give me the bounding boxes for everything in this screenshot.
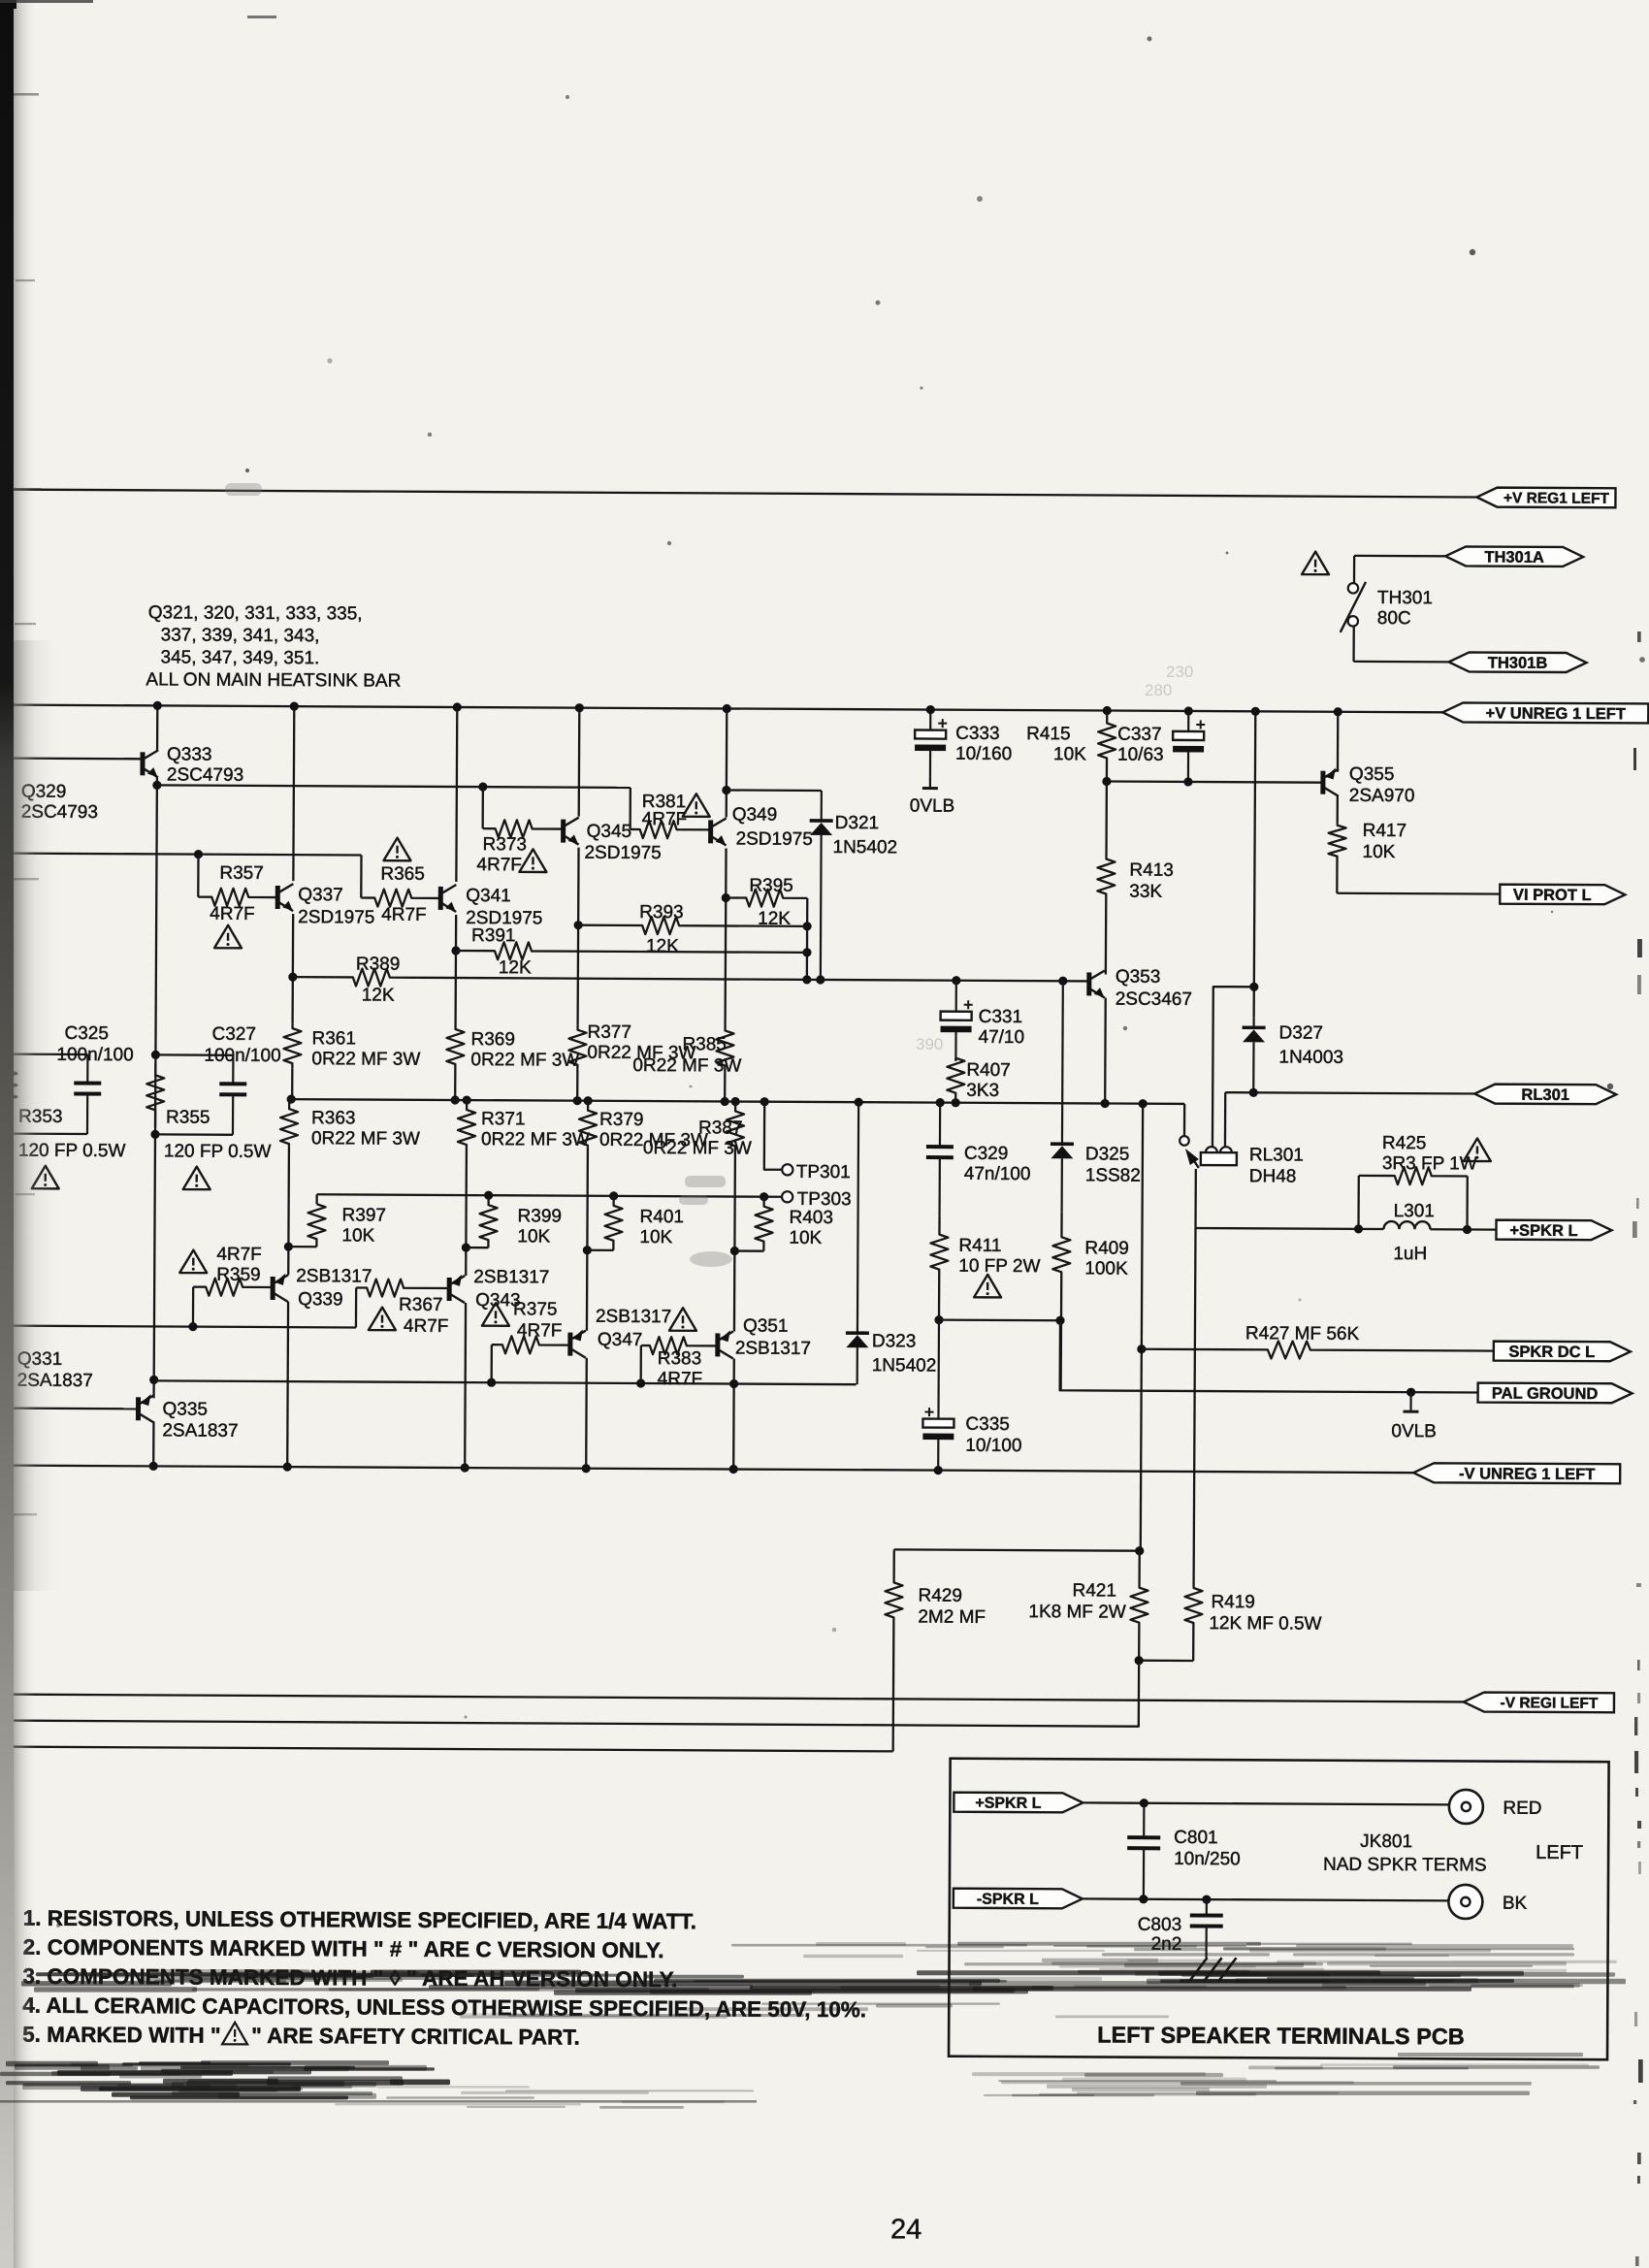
wire Q349 collector to bus bbox=[726, 708, 728, 817]
junction R409 at C335 link bbox=[1055, 1316, 1064, 1325]
wire R363 to Q339 bbox=[287, 1146, 290, 1275]
wire R373 drop bbox=[481, 787, 484, 828]
svg-text:SPKR DC L: SPKR DC L bbox=[1508, 1344, 1595, 1361]
resistor R365 4R7F bbox=[361, 889, 440, 906]
terminal RED bbox=[1449, 1790, 1542, 1825]
wire speaker DC column bbox=[1141, 1104, 1143, 1551]
svg-text:33K: 33K bbox=[1129, 882, 1162, 902]
svg-text:1N5402: 1N5402 bbox=[872, 1355, 937, 1376]
junction left column zobel top bbox=[4, 1050, 13, 1058]
junction R421 R419 bottom bbox=[1135, 1656, 1144, 1665]
label R357 value bbox=[210, 904, 255, 924]
label R411 bbox=[958, 1236, 1040, 1277]
label C333 bbox=[955, 724, 1012, 764]
junction R399 top bbox=[484, 1191, 493, 1200]
wire Q341 emitter bbox=[454, 915, 457, 1024]
label R399 bbox=[517, 1206, 562, 1247]
svg-text:TH301B: TH301B bbox=[1488, 655, 1548, 672]
svg-text:4R7F: 4R7F bbox=[216, 1245, 262, 1265]
junction speaker DC sense tap bbox=[1139, 1099, 1148, 1108]
junction Q333 collector at bus bbox=[153, 701, 162, 710]
wire relay to speaker line bbox=[1194, 1169, 1197, 1228]
junction R399 return tap bbox=[462, 1243, 470, 1251]
svg-text:1. RESISTORS, UNLESS OTHERWISE: 1. RESISTORS, UNLESS OTHERWISE SPECIFIED… bbox=[23, 1906, 696, 1934]
svg-text:0R22 MF 3W: 0R22 MF 3W bbox=[481, 1129, 590, 1150]
resistor R389 12K bbox=[293, 968, 418, 987]
svg-text:R383: R383 bbox=[658, 1348, 702, 1369]
svg-text:C333: C333 bbox=[955, 724, 1000, 744]
label R377 bbox=[587, 1022, 695, 1064]
resistor R381 4R7F bbox=[630, 821, 711, 838]
wire TH301B drop bbox=[1352, 627, 1354, 662]
svg-text:D321: D321 bbox=[835, 813, 880, 833]
resistor R353 bbox=[0, 1054, 16, 1134]
svg-text:R399: R399 bbox=[518, 1206, 563, 1226]
wire VI PROT lead bbox=[1337, 892, 1500, 895]
svg-text:R355: R355 bbox=[166, 1107, 210, 1127]
junction R401 return tap bbox=[583, 1246, 592, 1254]
resistor R377 0R22 MF 3W bbox=[568, 1025, 586, 1070]
terminal BK bbox=[1448, 1885, 1527, 1919]
junction R361 at output rail bbox=[287, 1094, 296, 1103]
label R353 value bbox=[18, 1141, 126, 1162]
svg-text:Q345: Q345 bbox=[587, 822, 632, 842]
junction C801 bottom bbox=[1139, 1895, 1148, 1903]
svg-text:RL301: RL301 bbox=[1521, 1086, 1569, 1104]
svg-text:80C: 80C bbox=[1377, 608, 1411, 629]
svg-text:10K: 10K bbox=[341, 1225, 374, 1246]
wire left column lower bbox=[5, 1380, 8, 1466]
junction Q337 collector at bus bbox=[290, 702, 299, 711]
net flag -V REG1 LEFT bbox=[1464, 1692, 1614, 1712]
resistor R375 4R7F bbox=[492, 1336, 570, 1353]
junction 12K ladder at sense line bbox=[802, 975, 811, 984]
wire lower base line 2 bbox=[0, 1326, 356, 1328]
resistor R383 4R7F bbox=[641, 1337, 718, 1354]
capacitor C803 2n2 bbox=[1190, 1899, 1223, 1958]
svg-text:47/10: 47/10 bbox=[978, 1027, 1024, 1048]
transistor Q349 2SD1975 bbox=[711, 818, 727, 845]
label R357 bbox=[219, 863, 264, 884]
wire relay feed column bbox=[1254, 711, 1256, 1017]
junction Q335 collector at -V bus bbox=[149, 1462, 158, 1471]
junction R401 top bbox=[609, 1191, 618, 1200]
safety triangle R357 bbox=[214, 925, 242, 949]
label R425 bbox=[1382, 1133, 1477, 1175]
svg-text:Q335: Q335 bbox=[162, 1399, 208, 1419]
wire +SPKR line bbox=[1196, 1228, 1384, 1229]
svg-text:2SC4793: 2SC4793 bbox=[167, 764, 243, 785]
label R383 bbox=[658, 1348, 703, 1389]
scan artifact smear over note 2 bbox=[731, 1942, 1574, 1958]
relay RL301 contact bbox=[1180, 1136, 1199, 1168]
svg-text:R389: R389 bbox=[356, 954, 401, 974]
transistor Q331 2SA1837 bbox=[0, 1350, 7, 1378]
svg-text:2SD1975: 2SD1975 bbox=[298, 907, 374, 927]
resistor R411 10 FP 2W bbox=[930, 1216, 949, 1320]
safety triangle R365 bbox=[383, 838, 410, 861]
transistor Q345 2SD1975 bbox=[564, 818, 579, 845]
svg-text:2SB1317: 2SB1317 bbox=[473, 1267, 549, 1287]
net flag +SPKR L bbox=[1496, 1220, 1611, 1241]
junction C337 bottom bbox=[1183, 777, 1192, 786]
label Q343 bbox=[473, 1267, 549, 1311]
resistor R387 0R22 MF 3W bbox=[727, 1101, 744, 1148]
svg-text:Q333: Q333 bbox=[167, 744, 212, 764]
svg-text:D323: D323 bbox=[872, 1331, 917, 1351]
wire TP301 stub bbox=[764, 1102, 782, 1170]
junction R415 R413 node bbox=[1102, 777, 1111, 786]
svg-text:C327: C327 bbox=[211, 1024, 256, 1045]
svg-text:0R22 MF 3W: 0R22 MF 3W bbox=[311, 1128, 420, 1150]
label R403 bbox=[789, 1208, 833, 1248]
transistor Q337 2SD1975 bbox=[277, 884, 293, 911]
wire R397 top leg bbox=[315, 1194, 317, 1204]
junction Q333 emitter node bbox=[152, 781, 161, 790]
transistor Q329 2SC4793 bbox=[0, 768, 10, 795]
junction R403 top bbox=[760, 1192, 768, 1201]
wire R409 to PAL ground bbox=[1060, 1320, 1478, 1392]
svg-text:R387: R387 bbox=[698, 1118, 743, 1138]
wire R377 to output rail bbox=[576, 1070, 578, 1101]
resistor R357 4R7F bbox=[198, 889, 276, 906]
label R415 bbox=[1026, 724, 1086, 764]
label R419 bbox=[1209, 1592, 1321, 1635]
svg-text:3R3 FP 1W: 3R3 FP 1W bbox=[1382, 1153, 1477, 1175]
svg-text:10n/250: 10n/250 bbox=[1174, 1849, 1241, 1869]
svg-text:Q321, 320, 331, 333, 335,: Q321, 320, 331, 333, 335, bbox=[148, 602, 363, 624]
wire C327 top leg bbox=[155, 1053, 233, 1056]
scan artifact smear over note 3 bbox=[21, 1969, 1626, 1995]
svg-text:2M2 MF: 2M2 MF bbox=[918, 1607, 986, 1628]
safety triangle R425 bbox=[1464, 1138, 1491, 1161]
resistor R373 4R7F bbox=[483, 820, 562, 837]
transistor Q333 2SC4793 bbox=[143, 750, 158, 777]
junction R395 at R393 bbox=[803, 922, 812, 930]
svg-text:R397: R397 bbox=[342, 1205, 387, 1225]
label R369 bbox=[470, 1029, 579, 1071]
svg-text:10K: 10K bbox=[1053, 744, 1086, 764]
wire R375 riser bbox=[491, 1345, 494, 1382]
svg-text:TP301: TP301 bbox=[796, 1162, 851, 1183]
svg-text:TH301: TH301 bbox=[1377, 588, 1433, 608]
wire R397 return bbox=[288, 1246, 316, 1247]
net flag +SPKR L pcb bbox=[954, 1793, 1083, 1813]
junction D321 at sense line bbox=[816, 975, 824, 984]
label R393 value bbox=[646, 936, 679, 956]
wire Q353 emitter to rail bbox=[1104, 998, 1107, 1104]
wire R403 return bbox=[734, 1249, 763, 1251]
wire RL301 flag line bbox=[1225, 1092, 1495, 1093]
label R421 bbox=[1028, 1580, 1126, 1623]
wire R421 return line bbox=[0, 1655, 1139, 1727]
svg-text:0VLB: 0VLB bbox=[1391, 1421, 1437, 1442]
wire R429 R421 top link bbox=[894, 1549, 1140, 1550]
scan artifact left margin gradient bbox=[8, 0, 35, 2268]
svg-text:280: 280 bbox=[1145, 681, 1172, 699]
label R359 bbox=[216, 1245, 262, 1285]
svg-text:R401: R401 bbox=[639, 1207, 684, 1227]
svg-text:R361: R361 bbox=[311, 1028, 356, 1049]
test point TP303 bbox=[782, 1189, 852, 1210]
svg-text:10/63: 10/63 bbox=[1117, 745, 1164, 765]
wire R425 right leg bbox=[1466, 1176, 1469, 1229]
label Q347 bbox=[596, 1307, 671, 1350]
scan artifact right edge dashes bbox=[1633, 632, 1643, 2266]
junction C803 top bbox=[1202, 1895, 1211, 1903]
safety triangle R355 bbox=[183, 1167, 210, 1190]
label R379 bbox=[599, 1110, 708, 1151]
capacitor C329 47n/100 bbox=[926, 1103, 954, 1216]
label R355 bbox=[166, 1107, 210, 1127]
svg-text:100n/100: 100n/100 bbox=[56, 1045, 133, 1065]
note 5 safety triangle glyph bbox=[222, 2023, 247, 2045]
resistor R429 2M2 MF bbox=[885, 1549, 903, 1751]
wire R429 return line bbox=[0, 1747, 893, 1752]
capacitor C801 10n/250 bbox=[1127, 1803, 1161, 1899]
svg-text:R367: R367 bbox=[399, 1295, 443, 1315]
svg-text:1K8 MF 2W: 1K8 MF 2W bbox=[1028, 1602, 1125, 1623]
label C327 bbox=[204, 1024, 280, 1066]
net flag +V UNREG 1 LEFT bbox=[1442, 702, 1648, 723]
svg-text:1SS82: 1SS82 bbox=[1085, 1165, 1141, 1185]
svg-text:R421: R421 bbox=[1072, 1580, 1116, 1601]
label Q339 bbox=[296, 1266, 372, 1310]
scan artifact margin streaks bbox=[13, 93, 42, 1515]
junction Q347 at -V bus bbox=[582, 1464, 591, 1473]
label R393 bbox=[639, 902, 684, 923]
svg-text:2SA1837: 2SA1837 bbox=[162, 1420, 238, 1441]
junction R373 tap bbox=[478, 783, 487, 792]
svg-text:4R7F: 4R7F bbox=[381, 905, 427, 925]
wire R387 to Q351 bbox=[733, 1149, 736, 1332]
resistor R399 10K bbox=[479, 1195, 497, 1247]
svg-text:120 FP 0.5W: 120 FP 0.5W bbox=[164, 1141, 272, 1162]
junction Q337 emitter R389 tap bbox=[288, 973, 297, 982]
label R389 value bbox=[362, 985, 395, 1005]
wire output emitter rail bbox=[289, 1099, 1184, 1104]
label Q345 bbox=[584, 822, 661, 863]
svg-text:R415: R415 bbox=[1026, 724, 1071, 744]
wire Q345 collector to bus bbox=[578, 708, 581, 817]
transistor Q347 2SB1317 bbox=[570, 1329, 586, 1357]
svg-text:" ARE SAFETY CRITICAL PART.: " ARE SAFETY CRITICAL PART. bbox=[251, 2024, 580, 2050]
label R373 bbox=[476, 834, 527, 875]
label R375 bbox=[513, 1299, 563, 1341]
junction Q349 emitter R395 tap bbox=[722, 893, 730, 902]
svg-text:Q349: Q349 bbox=[732, 804, 778, 825]
wire +V UNREG 1 LEFT bus bbox=[2, 705, 1442, 713]
capacitor C337 10/63 bbox=[1173, 711, 1205, 782]
label R389 bbox=[356, 954, 401, 974]
wire upper driver line bbox=[157, 785, 630, 788]
label R391 bbox=[471, 925, 516, 946]
svg-text:C325: C325 bbox=[64, 1023, 109, 1044]
svg-text:VI PROT L: VI PROT L bbox=[1513, 887, 1592, 904]
wire Q343 collector to -V bus bbox=[464, 1303, 467, 1468]
junction Q355 emitter at bus bbox=[1334, 707, 1342, 716]
label R367 bbox=[399, 1295, 449, 1337]
svg-text:0VLB: 0VLB bbox=[910, 795, 955, 816]
label R365 bbox=[380, 864, 425, 885]
safety triangle R411 bbox=[974, 1275, 1001, 1298]
capacitor C325 100n/100 bbox=[74, 1054, 101, 1134]
label Q341 bbox=[466, 886, 542, 928]
svg-text:C335: C335 bbox=[965, 1414, 1010, 1435]
label Q329 bbox=[21, 782, 98, 823]
junction D321 tap bbox=[722, 786, 730, 794]
net flag PAL GROUND bbox=[1478, 1383, 1633, 1404]
junction C329 top bbox=[936, 1098, 945, 1107]
diode D323 1N5402 bbox=[846, 1102, 871, 1384]
svg-text:R373: R373 bbox=[483, 834, 528, 855]
svg-text:390: 390 bbox=[916, 1035, 943, 1053]
junction 0VLB tap bbox=[1406, 1388, 1415, 1397]
svg-text:R375: R375 bbox=[513, 1299, 558, 1319]
wire Q337 emitter bbox=[291, 914, 294, 1023]
net flag RL301 bbox=[1474, 1085, 1616, 1105]
junction D325 tap bbox=[1058, 977, 1067, 986]
label R417 bbox=[1362, 821, 1406, 862]
junction R375 tap bbox=[487, 1378, 496, 1387]
svg-text:R403: R403 bbox=[789, 1208, 833, 1228]
label Q353 bbox=[1115, 967, 1192, 1010]
resistor R391 12K bbox=[456, 942, 807, 961]
label R353 bbox=[18, 1107, 63, 1127]
resistor R369 0R22 MF 3W bbox=[446, 1024, 464, 1069]
wire Q339 collector to -V bus bbox=[286, 1302, 289, 1467]
junction Q353 emitter at rail bbox=[1101, 1099, 1110, 1108]
junction R407 bottom bbox=[952, 1098, 960, 1107]
svg-text:230: 230 bbox=[1166, 663, 1193, 681]
junction Q345 collector at bus bbox=[575, 703, 584, 712]
wire R395 right leg bbox=[806, 898, 809, 980]
svg-text:337, 339, 341, 343,: 337, 339, 341, 343, bbox=[161, 625, 320, 646]
svg-text:PAL GROUND: PAL GROUND bbox=[1492, 1385, 1599, 1404]
junction C801 top bbox=[1140, 1798, 1148, 1807]
resistor R355 bbox=[146, 1063, 164, 1126]
chassis ground C803 bbox=[1189, 1958, 1236, 1981]
junction Q335 emitter node bbox=[149, 1376, 158, 1384]
svg-text:R427 MF 56K: R427 MF 56K bbox=[1245, 1323, 1360, 1345]
svg-text:10K: 10K bbox=[1362, 842, 1395, 862]
svg-text:R391: R391 bbox=[471, 925, 516, 946]
wire TH301A lead bbox=[1354, 555, 1466, 558]
junction left column at +V bus bbox=[6, 700, 15, 709]
svg-text:R429: R429 bbox=[918, 1586, 962, 1606]
svg-text:R385: R385 bbox=[682, 1034, 727, 1054]
safety triangle R353 bbox=[32, 1166, 59, 1189]
wire relay coil right leg bbox=[1224, 1092, 1227, 1150]
junction C331 tap bbox=[952, 976, 960, 985]
resistor R421 1K8 MF 2W bbox=[1130, 1551, 1148, 1661]
svg-text:100K: 100K bbox=[1084, 1258, 1128, 1279]
wire TH301B lead bbox=[1354, 661, 1470, 664]
resistor R359 4R7F bbox=[193, 1279, 273, 1296]
transistor Q355 2SA970 bbox=[1323, 767, 1339, 795]
wire Q351 collector to -V bus bbox=[732, 1359, 735, 1470]
junction Q351 at -V bus bbox=[729, 1465, 738, 1474]
net flag VI PROT L bbox=[1500, 885, 1625, 905]
svg-text:-SPKR L: -SPKR L bbox=[977, 1892, 1039, 1908]
safety triangle R381 bbox=[683, 794, 710, 817]
svg-text:345, 347, 349, 351.: 345, 347, 349, 351. bbox=[161, 647, 320, 668]
svg-text:R393: R393 bbox=[639, 902, 684, 923]
svg-text:10K: 10K bbox=[517, 1226, 550, 1247]
svg-text:2SC3467: 2SC3467 bbox=[1115, 989, 1192, 1010]
resistor R371 0R22 MF 3W bbox=[458, 1100, 475, 1147]
label R363 bbox=[311, 1108, 420, 1150]
safety triangle R359 bbox=[179, 1250, 207, 1274]
svg-text:Q355: Q355 bbox=[1349, 764, 1395, 785]
label RL301 bbox=[1249, 1145, 1304, 1186]
wire relay contact riser bbox=[1183, 1104, 1185, 1136]
label D321 bbox=[832, 813, 897, 858]
junction R387 at output rail bbox=[731, 1097, 740, 1106]
svg-text:Q351: Q351 bbox=[743, 1316, 789, 1337]
box LEFT SPEAKER TERMINALS PCB bbox=[949, 1759, 1609, 2060]
safety triangle R375 bbox=[482, 1303, 509, 1326]
junction relay feed at bus bbox=[1251, 707, 1260, 716]
svg-text:-V REGI LEFT: -V REGI LEFT bbox=[1501, 1695, 1599, 1712]
inductor L301 1uH bbox=[1383, 1221, 1430, 1229]
svg-text:D327: D327 bbox=[1279, 1022, 1324, 1043]
label D323 bbox=[872, 1331, 937, 1376]
capacitor C335 10/100 bbox=[922, 1320, 954, 1471]
junction Q349 collector at bus bbox=[723, 704, 731, 713]
wire driver column mid bbox=[154, 777, 157, 1398]
svg-text:100n/100: 100n/100 bbox=[204, 1046, 280, 1066]
junction R379 at output rail bbox=[584, 1096, 593, 1105]
wire R379 to Q347 bbox=[586, 1148, 589, 1331]
svg-text:R425: R425 bbox=[1382, 1133, 1427, 1153]
scan artifact smear in speaker box bbox=[948, 1953, 1617, 1988]
transistor Q353 2SC3467 bbox=[1089, 970, 1105, 997]
wire Q335 collector to -V bus bbox=[152, 1421, 155, 1466]
wire C325 bottom leg bbox=[8, 1132, 87, 1135]
svg-text:2SB1317: 2SB1317 bbox=[296, 1266, 372, 1286]
label Q333 bbox=[167, 744, 243, 785]
svg-text:4R7F: 4R7F bbox=[210, 904, 255, 924]
svg-text:+SPKR L: +SPKR L bbox=[975, 1796, 1041, 1812]
junction R371 at output rail bbox=[463, 1095, 471, 1104]
label C329 bbox=[964, 1144, 1031, 1184]
svg-text:-V UNREG 1 LEFT: -V UNREG 1 LEFT bbox=[1459, 1465, 1595, 1483]
junction R403 return tap bbox=[730, 1247, 739, 1255]
junction left column base line 2 bbox=[2, 1321, 11, 1330]
wire relay coil left leg bbox=[1212, 987, 1254, 1150]
wire Q333 base lead bbox=[2, 757, 143, 760]
svg-text:12K: 12K bbox=[646, 936, 679, 956]
net flag SPKR DC L bbox=[1494, 1342, 1631, 1362]
svg-text:1N5402: 1N5402 bbox=[832, 837, 897, 858]
junction left column base line 1 bbox=[5, 849, 14, 858]
wire Q347 collector to -V bus bbox=[585, 1358, 588, 1469]
junction C335 at -V bus bbox=[934, 1466, 943, 1474]
svg-text:10K: 10K bbox=[639, 1227, 672, 1247]
label R391 value bbox=[499, 957, 532, 978]
resistor R397 10K bbox=[307, 1204, 325, 1247]
svg-text:RED: RED bbox=[1503, 1798, 1541, 1819]
transistor Q341 2SD1975 bbox=[440, 885, 456, 912]
label TH301 80C bbox=[1377, 588, 1433, 629]
svg-text:+V REG1 LEFT: +V REG1 LEFT bbox=[1503, 490, 1610, 507]
wire Q335 drive line bbox=[154, 1380, 857, 1384]
svg-text:+SPKR L: +SPKR L bbox=[1509, 1222, 1577, 1240]
net flag TH301A bbox=[1445, 546, 1583, 567]
svg-text:4R7F: 4R7F bbox=[476, 855, 522, 875]
terminal 0VLB under C333 bbox=[910, 776, 955, 816]
